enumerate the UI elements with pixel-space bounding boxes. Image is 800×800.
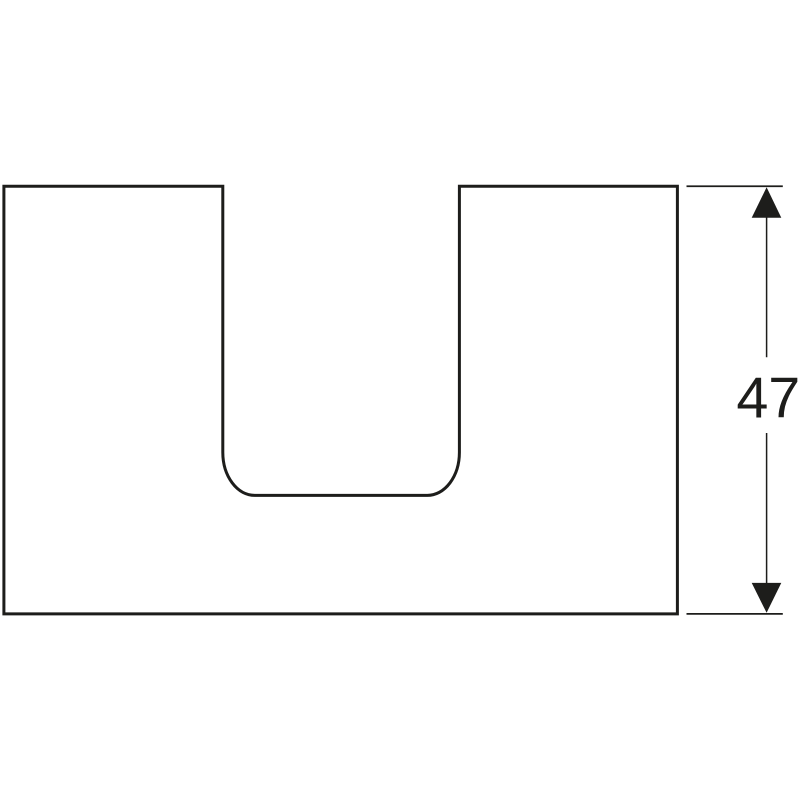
- dimension line upper segment: [766, 190, 768, 357]
- extension line bottom: [687, 613, 783, 615]
- panel outline with U-shaped cutout: [4, 186, 678, 614]
- arrowhead up: [752, 187, 782, 218]
- arrowhead down: [752, 583, 782, 613]
- svg-text:47: 47: [736, 367, 800, 431]
- extension line top: [687, 185, 783, 187]
- dimension line lower segment: [766, 433, 768, 610]
